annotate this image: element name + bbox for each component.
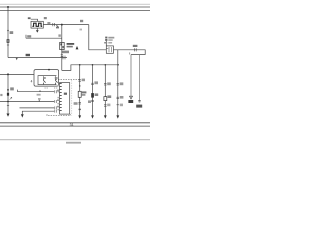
ground arrow track3 [104, 115, 107, 118]
connector pair track2 [91, 99, 94, 101]
connector tick on left wire [7, 44, 9, 46]
switch labels [43, 77, 46, 79]
label 30 on y57 wire [26, 54, 30, 56]
wire D y111.2 with ground arrow [22, 111, 54, 114]
wire: drop to open arrow 54 [130, 55, 132, 97]
relay feed label [28, 17, 31, 19]
wire: y38 horizontal from arrow start [26, 37, 62, 39]
connector pair track1 [78, 102, 81, 104]
label 30 above wire right [80, 20, 83, 22]
switch assembly box E (rounded) [34, 70, 59, 87]
track 4 wire x117.8 [117, 50, 119, 116]
center vertical wire from junction [61, 25, 63, 71]
control unit pin ticks [60, 83, 62, 110]
connector pair on center wire [61, 54, 63, 56]
track 3 wire x105.3 [104, 65, 106, 116]
tick blob track1 [79, 109, 81, 110]
wire: corner down to pump feed [89, 25, 107, 50]
ground bus line 31 (double) [0, 122, 150, 124]
dashed enclosure top [56, 79, 81, 81]
tiny text left edge [0, 94, 2, 96]
node tick on left wire [7, 30, 9, 32]
label 54 [128, 100, 133, 103]
open arrow [130, 96, 133, 99]
control unit J box [60, 83, 70, 115]
frame bottom border [0, 139, 150, 141]
node: junction dot rail/left wire [7, 6, 9, 8]
connector tick [7, 105, 9, 107]
wire A y91.7 [18, 91, 55, 93]
relay pulse waveform symbol [32, 23, 42, 26]
end symbol [138, 100, 141, 102]
label text blob right of node [10, 31, 14, 34]
wire: relay output y24.6 [43, 24, 89, 26]
inner box of switch assembly [38, 76, 56, 85]
diode/component on left wire [7, 93, 9, 96]
warning triangle [76, 46, 79, 50]
power rail 30 (top) [0, 6, 150, 8]
track 2 wire x92.5 [92, 65, 94, 116]
svg-text:31: 31 [70, 123, 74, 127]
pin labels right of ticks [57, 90, 59, 92]
label above wire [47, 22, 50, 24]
connector lower track4 [117, 104, 120, 106]
connector label mark [56, 25, 58, 27]
title text bottom [66, 142, 81, 144]
node dot (8,89.9) [7, 89, 9, 91]
relay J (pulse relay) box [31, 21, 43, 28]
node dot track1 [79, 85, 81, 87]
node: dot at (8,74.4) [7, 73, 9, 75]
faint label below 30 [80, 29, 83, 31]
wire: drop x139.5 [139, 55, 141, 101]
ground arrow track2 [91, 115, 94, 118]
resistor N on track 1 [78, 91, 81, 97]
wire: left vertical to ground [7, 74, 9, 113]
relay ground stub arrow [36, 28, 38, 30]
ground arrow track1 [78, 115, 81, 118]
ground arrow left [7, 114, 10, 117]
wire: step from center down to distribution line [62, 65, 118, 71]
label left of center wire [58, 34, 60, 36]
ground arrow track4 [116, 115, 119, 118]
track 1 wire x79.7 [79, 65, 81, 116]
component on track 2 (dark) [91, 93, 94, 98]
connector lower track3 [104, 104, 107, 106]
component on track 3 [104, 97, 107, 101]
wire: pump out to right corner [113, 50, 145, 55]
label blob right [10, 87, 14, 90]
arrow start tick [25, 35, 27, 38]
tick on wire A [39, 90, 41, 92]
relay feed stub [31, 19, 38, 21]
component labels right (2 rows) [67, 43, 75, 45]
label 30 right of relay top [44, 17, 47, 19]
pin number labels left of control unit [57, 85, 59, 110]
connector arrow mark on y57 wire [16, 58, 18, 60]
wire C y107.9 [20, 107, 55, 109]
dashed enclosure right side [71, 80, 73, 116]
pump connector above [105, 37, 107, 39]
arrow mark small [10, 97, 12, 99]
wire: left vertical from rail to y57 [7, 7, 9, 58]
mechanical link dashes [45, 87, 49, 89]
tick on wire B [38, 100, 40, 102]
wire B y101.5 (full) [0, 101, 54, 103]
label at arrow start [27, 35, 31, 37]
node dot on box top [48, 69, 50, 71]
component K on center wire [60, 42, 64, 49]
wire: horizontal run y57.5 to center [8, 57, 67, 59]
node: junction dot feed of center vertical [61, 24, 63, 26]
svg-text:4: 4 [31, 79, 33, 83]
label [136, 105, 142, 108]
connector pair on wire [52, 23, 54, 26]
fuse S on left wire [7, 40, 9, 43]
connector track2 [91, 82, 94, 84]
control unit label KB [64, 93, 67, 95]
connector track3 [104, 83, 107, 85]
pump labels [108, 37, 114, 39]
power rail 15 (second) [0, 10, 150, 12]
switch contact 1 [44, 76, 46, 84]
label below wire A [37, 94, 41, 96]
dashed enclosure bottom [47, 114, 70, 115]
switch contact 2 [56, 76, 58, 84]
connector pair ticks near center junction [62, 56, 64, 60]
frame top border [0, 3, 150, 5]
connector top track4 [117, 83, 120, 85]
wire: lower-left horizontal y74.4 [0, 73, 34, 75]
fuel pump box G6 [106, 46, 113, 53]
connector pair on pump-out wire [133, 48, 135, 51]
node dots on distribution line [79, 64, 81, 66]
connector tick top track1 [78, 79, 81, 81]
connector ticks at wire ends A-D [55, 90, 57, 112]
label above center junction [62, 51, 69, 54]
connector pair track4 [117, 96, 120, 98]
